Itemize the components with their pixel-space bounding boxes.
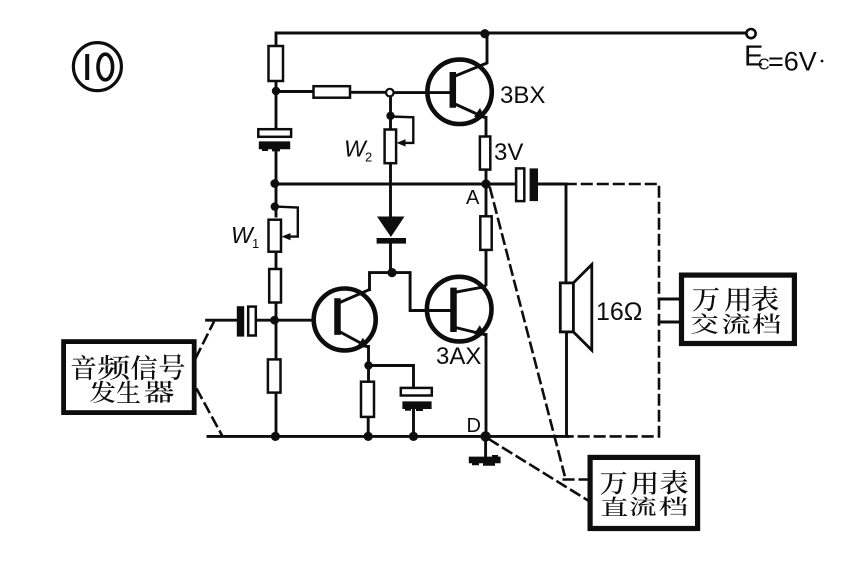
svg-text:=6V: =6V — [768, 47, 817, 77]
svg-text:D: D — [467, 415, 481, 437]
svg-text:16Ω: 16Ω — [596, 298, 643, 326]
svg-text:3BX: 3BX — [500, 82, 545, 109]
svg-text:A: A — [466, 187, 480, 209]
svg-text:3AX: 3AX — [436, 343, 481, 370]
svg-text:2: 2 — [365, 150, 372, 165]
svg-text:3V: 3V — [494, 139, 523, 166]
svg-text:1: 1 — [252, 236, 259, 251]
